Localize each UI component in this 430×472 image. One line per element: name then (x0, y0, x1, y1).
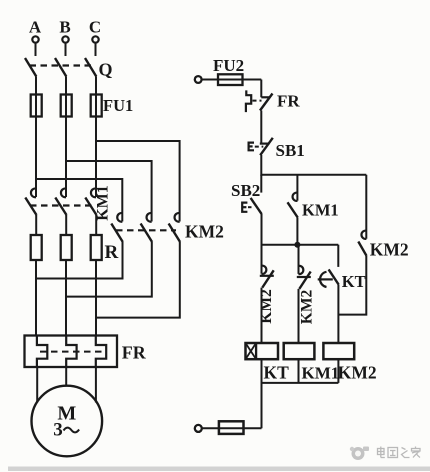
wire phase C vertical to KM1 (95, 117, 97, 198)
fuse FU2 (213, 56, 261, 85)
wire A KM1 to resistor (35, 215, 37, 235)
wire phase B vertical to KM1 (65, 117, 67, 198)
resistor R pole A (31, 235, 42, 260)
svg-text:3: 3 (53, 420, 63, 441)
svg-text:SB2: SB2 (231, 181, 260, 200)
svg-text:FU1: FU1 (103, 96, 133, 115)
wire B KM1 to resistor (65, 215, 67, 235)
contactor KM2 pole2 contact (141, 213, 153, 242)
wire branch B to KM2 pole2 (66, 161, 152, 222)
thermal relay FR heater B (66, 336, 76, 368)
wire A resistor to FR (35, 260, 37, 336)
contactor KM2 aux NO contact (358, 175, 408, 260)
wire branch1 to KT coil (261, 288, 263, 343)
switch Q pole A blade (25, 58, 36, 77)
contactor KM1 linkage dashed (30, 204, 92, 206)
wire rail2 (262, 244, 339, 246)
contactor KM2 NC contact branch2 (297, 245, 316, 325)
wire bottom bus (262, 382, 339, 384)
wire KM1 aux to rail2 (296, 218, 298, 245)
node A terminal (29, 18, 42, 43)
switch Q pole C blade (85, 58, 96, 77)
contactor KM1 aux NO contact (288, 175, 339, 220)
svg-text:KM1: KM1 (302, 201, 339, 220)
svg-text:KT: KT (264, 363, 290, 383)
wire terminal to FU2 (202, 79, 218, 81)
coil KM1 (284, 343, 340, 383)
svg-text:B: B (59, 18, 70, 37)
wire KM1 coil bottom (298, 359, 300, 383)
wire rail1 (261, 174, 366, 176)
wire phase C top stub (95, 43, 97, 56)
wire KM2 pole3 bottom join (96, 242, 180, 318)
coil KM2 (323, 343, 376, 383)
svg-text:FR: FR (122, 343, 147, 363)
contactor KM1 pole C contact (85, 188, 96, 215)
wire KM2 coil bottom (337, 359, 339, 383)
wire B to FU1 (65, 77, 67, 95)
wire bottom return (202, 427, 262, 429)
bottom grey strip (8, 467, 430, 472)
wire KT contact to KM2 coil (337, 285, 339, 344)
thermal relay FR heater A (37, 336, 47, 368)
wire branch A to KM2 pole1 (36, 179, 122, 222)
svg-text:FU2: FU2 (213, 56, 244, 75)
svg-text:FR: FR (277, 92, 300, 111)
wire branch C to KM2 pole3 (96, 141, 180, 222)
svg-text:KM2: KM2 (370, 240, 409, 260)
wire phase A top stub (35, 43, 37, 56)
wire SB1 to rail1 (260, 155, 262, 176)
contactor KM2 pole1 contact (111, 213, 123, 242)
control terminal top (195, 76, 202, 83)
svg-text:R: R (105, 242, 119, 263)
wire B resistor to FR (65, 260, 67, 336)
wire C FR to motor (95, 367, 97, 403)
resistor R pole C (91, 235, 102, 260)
thermal relay FR heater C (96, 336, 106, 368)
contactor KM1 pole A contact (25, 188, 36, 215)
wire A to FU1 (35, 77, 37, 95)
wire C to FU1 (95, 77, 97, 95)
svg-text:KM2: KM2 (338, 363, 377, 383)
pushbutton SB1 NC (249, 138, 305, 160)
wire FU2 corner down (260, 80, 262, 98)
wire C KM1 to resistor (95, 215, 97, 235)
fuse FU1 pole B (61, 95, 72, 117)
svg-text:A: A (29, 18, 42, 37)
watermark text 电园之家 drawn (378, 447, 421, 458)
thermal relay FR box (25, 336, 118, 368)
wire FR to SB1 (260, 111, 262, 144)
wire KM2 pole2 bottom join (66, 242, 152, 297)
motor M (32, 386, 103, 457)
timer KT delayed NO contact (318, 245, 366, 291)
switch Q linkage dashed (30, 64, 94, 66)
thermal contact FR NC (246, 90, 300, 112)
wire C resistor to FR (95, 260, 97, 336)
wire KT coil bottom (261, 359, 263, 428)
control terminal bottom (195, 425, 202, 432)
svg-text:KT: KT (342, 272, 366, 291)
fuse FU1 pole A (31, 95, 42, 117)
svg-text:KM2: KM2 (185, 222, 224, 242)
wire phase B top stub (65, 43, 67, 56)
resistor R pole B (61, 235, 72, 260)
watermark icon (350, 447, 369, 461)
pushbutton SB2 NO (231, 175, 262, 214)
contactor KM2 pole3 contact (169, 213, 181, 242)
wire phase A vertical to KM1 (35, 117, 37, 198)
thermal relay FR linkage dashed (40, 351, 104, 353)
node B terminal (59, 18, 70, 43)
node C terminal (89, 18, 101, 43)
coil KT with X box (246, 343, 290, 383)
fuse FU1 pole C (91, 95, 102, 117)
fuse FU2 bottom (219, 421, 244, 434)
svg-text:Q: Q (99, 60, 113, 80)
svg-text:KM2: KM2 (299, 290, 316, 325)
svg-text:SB1: SB1 (276, 141, 305, 160)
wire KM2 pole1 bottom join (36, 242, 123, 279)
wire SB2 to rail2 (261, 214, 263, 246)
contactor KM2 linkage dashed (116, 229, 176, 231)
svg-text:C: C (89, 18, 101, 37)
contactor KM1 pole B contact (55, 188, 66, 215)
junction dot rail2 (294, 242, 300, 248)
wire branch2 to KM1 coil (298, 289, 300, 343)
wire A FR to motor (36, 367, 38, 403)
wire KM2 aux bottom join (338, 256, 366, 315)
switch Q pole B blade (55, 58, 66, 77)
wire B FR to motor (65, 367, 67, 386)
contactor KM2 NC contact branch1 (258, 245, 275, 324)
svg-text:KM1: KM1 (302, 364, 340, 383)
